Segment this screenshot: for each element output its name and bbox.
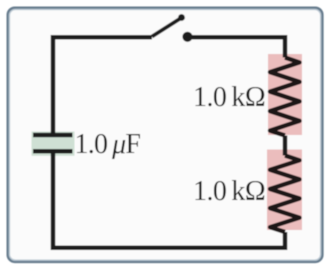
highlight box capacitor C1 — [32, 132, 75, 156]
resistor R1 zigzag — [270, 58, 300, 136]
capacitor C1 bottom plate — [33, 149, 73, 154]
switch S1 lever — [152, 19, 180, 37]
wire top-left (switch left lead) — [53, 37, 152, 135]
svg-text:1.0 kΩ: 1.0 kΩ — [193, 176, 265, 207]
highlight box resistor R1 — [268, 54, 302, 135]
wire between R1 and R2 — [283, 136, 288, 156]
svg-text:1.0 μF: 1.0 μF — [75, 129, 141, 160]
svg-text:1.0 kΩ: 1.0 kΩ — [193, 82, 265, 113]
highlight box resistor R2 — [267, 150, 302, 231]
capacitor C1 top plate — [33, 133, 73, 138]
resistor R2 zigzag — [270, 156, 300, 233]
switch S1 lever tip dot — [178, 14, 185, 21]
switch S1 contact dot — [182, 32, 192, 42]
wire top-right (switch right lead) — [187, 37, 285, 57]
wire bottom — [53, 151, 285, 248]
